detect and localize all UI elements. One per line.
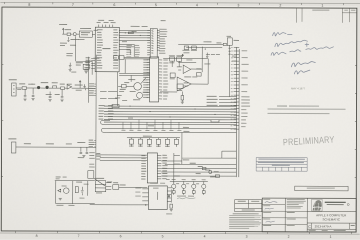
svg-text:7: 7 [78,234,80,238]
left rail label stubs [94,84,96,147]
title row divider [307,211,356,213]
wire: R42 leads [181,92,183,102]
keyboard right pin stubs [167,191,171,202]
bottom ruler ticks [16,231,352,234]
damper resistor RT2 [182,191,185,194]
handwritten note line 3 "sign off in Jack's office" [271,46,334,55]
left column row lines [262,205,285,225]
svg-text:2: 2 [279,4,281,8]
top ruler ticks [4,2,343,5]
ground C7 [69,69,72,71]
CPU U2 6502 [95,27,119,72]
transformer labels [166,179,206,197]
video mixer labels [120,79,149,100]
U7 right pin stubs [159,60,163,99]
application strip box [295,186,348,191]
U14 internal lines [95,184,106,188]
power supply rail top [55,180,95,182]
capacitor C9 [80,147,83,153]
inline resistor R40 [223,43,227,45]
bypass cap C15 [206,53,208,58]
capacitor C4 to ground [32,88,35,96]
capacitor C6 to ground [61,90,64,98]
size cell [312,223,350,229]
slot connector J8 pin numbers [231,47,234,129]
note line: general notes 2 [268,108,346,109]
U14 pin stubs [106,183,112,190]
J1 pins [13,85,15,92]
hairpin turn B [101,128,107,132]
resistor R5 [75,187,78,193]
buffer box left pin rungs [147,30,150,55]
connector J7 pin name labels [159,29,167,54]
middle column row lines [285,211,307,224]
ground R42 [181,102,184,104]
data bus left labels [98,105,104,119]
handwritten note line 2 "Please check +" [275,40,309,47]
slot connector J8 pin name labels [241,50,250,127]
company name text [325,202,350,206]
expansion area box [182,133,237,159]
resistor pack RP3 [147,139,151,144]
data column labels [100,91,124,99]
svg-text:3: 3 [246,235,248,239]
note line: general notes 3 [268,113,330,114]
revisions header text [312,10,329,11]
wire: transformer return [174,193,204,195]
svg-text:8: 8 [36,234,38,238]
resistor pack RP5 [165,139,169,144]
ground C5 [48,99,51,101]
svg-text:7: 7 [72,3,74,7]
svg-text:SCHEMATIC: SCHEMATIC [322,217,340,221]
wire: stubs below U8 U9 [172,54,184,67]
junction dot [145,204,146,205]
psu left leg [55,181,57,204]
resistor R2 [22,87,27,89]
utility strobe resistor R31 [215,175,219,177]
wire: encoder rows to slot [161,158,236,176]
IC U2 left outside pin labels [86,57,91,68]
IC U12 input labels [96,153,101,160]
CPU top pin stubs [99,25,113,28]
bottom ruler line [0,233,360,234]
wire: address loop rows [106,124,237,132]
approval stamp text rows [258,159,305,160]
wire: video amp feed [160,58,208,92]
note line: general notes 1 [277,106,287,107]
wire: to keyboard box [119,186,147,188]
IC U2 6502 pin labels right [113,29,119,68]
damper resistor RT3 [192,191,195,194]
left column labels [263,199,271,226]
IC U2 6502 pin labels left [97,29,103,68]
regulator U14 [95,181,106,192]
wire: ram address bus upper [119,59,150,82]
damper resistor RT4 [202,191,205,194]
bottom zone numbers 8..1 [36,234,332,239]
termination stubs below bus [123,120,179,130]
transformer T3 [192,184,196,188]
ground C4 [31,98,34,100]
psu right leg [87,181,89,196]
oscillator value labels [59,24,98,46]
IC U12 pin labels left [141,155,146,179]
slot bus J8 rails [236,47,239,177]
wire: aux power row [16,146,96,148]
wire: audio-in row [16,87,95,89]
svg-text:C: C [308,225,311,229]
latch chip U9 [177,57,182,61]
IC U12 pin labels right [162,155,167,179]
flip-flop U18 [83,64,89,69]
approval stamp box [256,158,307,172]
wire: timing to mux [124,57,150,59]
wire: vertical feed left of CPU [88,55,96,180]
svg-text:8: 8 [28,3,30,7]
bus wire labels [122,20,166,42]
diode CR3 [53,86,57,88]
keyboard block labels [135,183,172,215]
encoder chip U12 [147,153,157,183]
analog switch labels [190,163,219,178]
keyboard left pin stubs [142,189,148,201]
title block outer box [262,198,356,232]
paddle pot R30 [209,170,212,173]
wire: rows into encoder [96,155,148,161]
resistor R6 [170,204,173,208]
gate chip U11 [177,84,183,89]
pencil scribble near transformers [177,198,195,199]
left rail signal labels [89,83,95,95]
wire: bus drop verticals [130,44,134,57]
wire: video feed 2 [186,46,222,48]
number row divider [307,222,356,224]
wire: vertical tap rail [174,153,180,183]
wire: diagonal to psu area [94,178,105,186]
U7 left pin stubs [147,60,150,98]
title block column dividers [285,198,307,232]
video output labels [182,36,239,78]
resistor pack RP4 [156,139,160,144]
scale/sheet row [307,228,356,230]
crystal Y1 [73,33,76,36]
gate chip U10 [170,73,175,78]
bypass cap C14 [83,84,85,90]
+5V stub at oscillator [62,28,64,34]
transistor Q3 [134,83,142,91]
svg-text:4: 4 [204,234,206,238]
wire: cpu data column [108,72,117,106]
resistor R3 [61,87,65,89]
+12V filter cap C7 [69,63,72,70]
cap C12 [168,195,170,197]
handwritten note line 4 "Thanks" [291,61,315,67]
buffer box right pin stubs [157,30,160,50]
U12 right pin stubs [157,155,161,178]
capacitor C5 to ground [49,91,52,97]
color gen box U16 [184,46,189,50]
left column signatures [265,202,278,223]
resistor R1 [67,33,71,35]
damper resistor RT1 [172,191,175,194]
interrupt daisy labels [207,96,218,106]
top ruler line [0,2,360,3]
wire: oscillator row [62,33,95,35]
aux connector labels [8,138,85,158]
top zone numbers 8..1 [28,3,323,8]
timing chip U5 [114,56,119,60]
power supply labels [55,177,88,206]
PRELIMINARY stamp [283,134,335,148]
buffer box U3 [150,29,157,59]
video connector J2 [11,142,16,153]
ground psu [59,198,62,200]
capacitor C10 [86,147,89,153]
wire: ground bus to keyboard [90,204,149,206]
parts-list note paragraph [229,213,261,228]
buffer box U3 pin numbers [151,30,153,53]
ground U18 [85,71,88,73]
right zone ticks [355,66,357,178]
wire: Q3 collector [118,77,146,86]
handwritten note line 1 "Bill -" [273,33,293,36]
diode CR2 [113,185,119,190]
CPU left pin stubs [91,58,95,68]
next-assy / used-on table [235,200,262,212]
op-amp U13 [67,85,72,89]
wire: video amp out [191,68,202,70]
slot bus pin rungs upper [233,48,239,130]
capacitor C1 [67,37,69,41]
middle column tolerance text [287,199,306,208]
transistor Q1 [37,86,40,89]
pass transistor Q5 [63,188,69,194]
svg-text:2: 2 [288,235,290,239]
svg-text:4: 4 [196,3,198,7]
cassette connector J1 [12,83,17,96]
data bus line labels [108,105,114,119]
regulator labels [95,178,126,194]
address loop labels [121,118,189,161]
wire: ram strobe row [127,137,180,139]
resistor pack RP2 [138,139,142,144]
ground C3 [23,99,26,101]
resistor pack value labels [129,136,170,147]
transistor Q4 [137,92,143,98]
IC U7 pin labels right [163,59,168,99]
svg-text:6: 6 [120,234,122,238]
junction dots data bus [124,32,215,117]
Apple (Newton) logo [312,199,323,211]
resistor pack RP6 [174,139,178,144]
rf coil L1 [197,73,202,77]
wire: transformer feed [170,180,208,182]
video amp Q6 [183,65,191,74]
svg-text:3: 3 [237,3,239,7]
clock area labels [66,20,113,73]
svg-text:1: 1 [330,235,332,239]
resistor pack RP1 [129,139,133,144]
ground keyboard [170,209,173,211]
interrupt daisy wires [219,97,237,106]
dac ladder box U15 [88,171,94,179]
transformer T4 [202,184,206,188]
ground C6 [60,100,63,102]
wire: data bus rows [104,106,237,122]
left rail lower labels [89,140,95,148]
color gen box U17 [192,46,197,50]
gate cluster labels [169,55,189,91]
IC U7 pin labels left [143,59,149,97]
left zone ticks [1,64,3,176]
connector J7 pin numbers [152,29,154,54]
wire: cpu to buffer box [119,30,150,40]
wire: U19 output [191,59,208,85]
video jack J6 [227,38,232,45]
wire: video jack drop [228,45,231,96]
hairpin turn A [101,120,110,124]
cassette interface labels [9,79,83,95]
inline filter on row [211,120,219,122]
+12V rail labels [76,62,90,70]
revisions block top-right [297,8,357,23]
inline resistor on cpu bus [128,32,133,34]
video op-amp U19 [177,77,191,91]
psu bottom rail [56,203,95,205]
transformer T2 [182,184,186,188]
transformer T1 [172,184,176,188]
transformer stubs [174,181,204,190]
transistor Q2 [45,86,48,89]
handwritten note line 5 "Tom" [294,70,310,74]
svg-text:MAY 4 1977: MAY 4 1977 [291,86,306,90]
svg-text:5: 5 [162,234,164,238]
oscillator module U1 [79,31,92,37]
wire: 14M to CPU [76,36,93,74]
ground aux [82,155,85,157]
mixer aux labels [115,95,127,101]
+5V stub [79,81,81,89]
timing chip U6 [119,56,124,60]
mux chip U7 [150,57,159,102]
wire: video feed [178,43,227,45]
latch chip U8 [170,57,175,61]
left rail lower label rows [89,152,95,167]
keyboard block A2 [148,186,167,210]
resistor R27 [122,84,127,88]
wire: cpu lower bus [119,44,134,49]
capacitor C3 to ground [24,90,27,97]
resistor pack stubs [131,138,176,147]
svg-text:1: 1 [321,4,323,8]
resistor R42 [181,96,184,101]
wire: keyboard right rail [170,189,172,202]
filter cap C11 [81,187,84,196]
address stub labels [126,45,139,58]
speaker cap C20 [202,167,206,169]
rectifier diode CR1 [58,189,61,192]
svg-text:6: 6 [113,3,115,7]
inline filter on bus [112,104,119,107]
svg-text:2513-6479-A: 2513-6479-A [315,224,332,228]
IC U2 part number label [102,48,110,49]
wire: color burst vertical [201,47,203,72]
IC U2 top pin labels [97,22,116,23]
svg-text:5: 5 [155,3,157,7]
wire: U11 to bus [183,85,188,87]
psu mid leg [72,181,74,204]
